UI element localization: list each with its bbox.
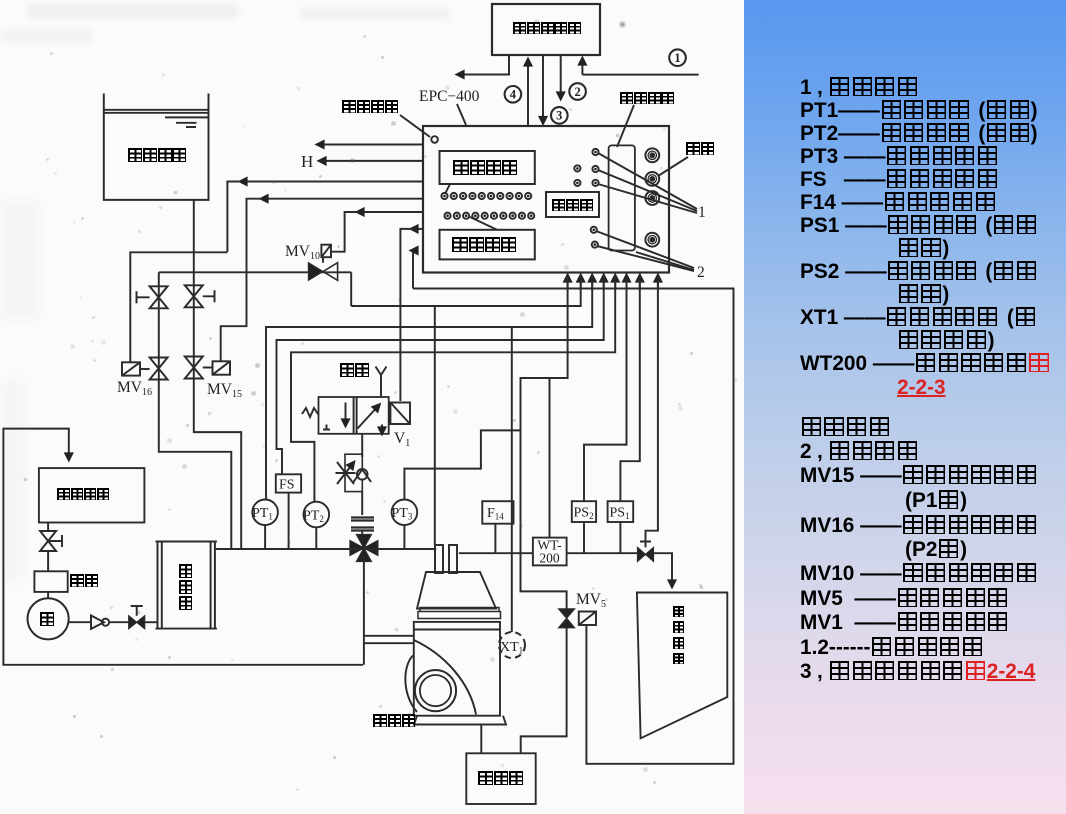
LED row 1	[441, 193, 447, 199]
svg-text:EPC−400: EPC−400	[419, 88, 480, 105]
wire horizontal right	[582, 74, 698, 76]
label 日用油柜 vertical	[672, 601, 685, 669]
sludge lines to separator	[364, 636, 414, 643]
svg-text:MV16: MV16	[117, 379, 152, 398]
wire to MV10	[357, 211, 423, 213]
LED row 2	[444, 213, 450, 219]
function LEDs left col	[574, 165, 580, 171]
leader to LED row2	[470, 217, 497, 230]
V1 spring	[302, 408, 319, 417]
label 功能符号	[620, 90, 675, 106]
MV16 link	[140, 368, 150, 370]
svg-text:MV15: MV15	[207, 381, 242, 400]
svg-text:MV10: MV10	[285, 243, 320, 262]
callout lines to 1	[598, 153, 697, 213]
V1 ticks	[323, 425, 386, 430]
fan4 to FS	[277, 276, 604, 474]
pump line valve	[129, 616, 145, 629]
svg-text:4: 4	[510, 88, 517, 102]
label 控钮	[686, 142, 714, 158]
power switch circle	[431, 136, 438, 143]
function LEDs right col	[592, 149, 598, 155]
WT-200 box	[533, 538, 567, 566]
knob 1	[645, 148, 659, 162]
svg-text:XT1: XT1	[500, 640, 523, 656]
separator curve	[414, 640, 476, 715]
leader power switch	[400, 115, 430, 137]
PT1 sensor	[252, 500, 278, 526]
svg-text:PS2: PS2	[574, 506, 594, 522]
leader 功能符号	[617, 105, 634, 147]
V1 left cell arrows	[345, 403, 347, 427]
svg-text:1: 1	[698, 204, 706, 221]
work water tank 工作水柜	[104, 94, 209, 200]
wire panel-left arrow H	[319, 160, 423, 162]
air supply antenna 气源	[376, 367, 387, 398]
fan5 to PT2	[291, 276, 615, 502]
output signal box 输出信号	[440, 230, 535, 260]
label 工作水柜	[128, 147, 187, 164]
svg-text:200: 200	[539, 551, 560, 566]
wire to MV15 chain	[261, 198, 423, 200]
valve V-a stem	[137, 291, 150, 303]
settle valve	[40, 523, 56, 572]
throttle below	[361, 491, 363, 515]
input alarm box 输入报警	[440, 151, 535, 184]
pump outlet	[69, 621, 91, 623]
LED centers row1	[443, 151, 597, 246]
riser top arrow	[411, 250, 413, 252]
separator flange	[418, 608, 501, 619]
svg-text:1: 1	[674, 51, 680, 65]
label 油渣柜	[478, 770, 523, 788]
settling tank 沉淀油柜	[39, 468, 144, 522]
MV10 butterfly valve	[308, 263, 323, 281]
valve V-b stem	[203, 290, 215, 302]
svg-text:2: 2	[574, 85, 580, 99]
air line to separator stub	[434, 306, 436, 545]
wire down from starter to panel	[542, 55, 544, 124]
svg-text:F14: F14	[487, 506, 504, 522]
leader 控钮	[658, 157, 688, 176]
fan2 to water line	[351, 276, 581, 306]
F14 box	[482, 501, 513, 524]
MV5 solenoid box	[579, 612, 596, 626]
label 输入报警	[453, 159, 518, 178]
separator inlet stub B	[449, 545, 457, 573]
V1 below to throttle	[361, 434, 363, 457]
PT3 wire chain	[404, 430, 520, 500]
svg-text:FS: FS	[279, 478, 295, 493]
svg-text:V1: V1	[394, 430, 410, 449]
fan stub arrows	[567, 275, 569, 290]
4-way valve MV1	[350, 535, 378, 562]
knob 3	[645, 191, 659, 205]
svg-text:PT2: PT2	[303, 509, 324, 525]
WT200 stem	[549, 378, 551, 538]
PT3 sensor	[392, 500, 418, 526]
valve V-a	[150, 286, 168, 308]
node 3 circled	[551, 107, 568, 124]
motor starter box 电机起动器	[492, 4, 600, 55]
svg-text:MV5: MV5	[576, 591, 606, 610]
main pipe left	[215, 548, 436, 550]
inlet valve stem	[640, 542, 651, 548]
ghost marks top-left	[28, 4, 238, 18]
leader EPC-400	[457, 104, 466, 125]
tank outlet down	[194, 200, 241, 549]
MV15 link	[203, 367, 213, 369]
XT1 stem	[511, 327, 513, 632]
label 显示窗	[552, 197, 593, 213]
label 分油机	[373, 714, 416, 730]
valve V-b	[185, 285, 203, 307]
valve MV16-v	[150, 358, 168, 380]
heater 加热器	[156, 542, 217, 629]
pump 泵	[27, 598, 68, 639]
separator bowl circle	[415, 670, 456, 711]
separator left bulge	[405, 655, 417, 712]
throttle check assembly	[345, 454, 362, 491]
wire to work tank upper	[240, 181, 423, 183]
settle tank loop	[3, 429, 363, 665]
svg-text:PS1: PS1	[610, 506, 630, 522]
wire to V1 solenoid	[411, 228, 423, 230]
svg-text:H: H	[301, 152, 313, 171]
wire down arrow short	[560, 55, 562, 99]
water line	[159, 271, 351, 273]
check valve	[91, 616, 104, 629]
daily tank inlet valve	[638, 547, 654, 561]
function symbol column	[609, 145, 635, 250]
wire panel-left arrow1	[317, 144, 423, 146]
filter box 滤器	[34, 571, 67, 592]
EPC-400 control panel	[423, 126, 669, 273]
callout lines to 2	[596, 231, 694, 271]
label 滤器	[70, 574, 98, 590]
MV10 stem	[322, 257, 324, 263]
wire from starter right	[581, 58, 583, 75]
svg-text:PT3: PT3	[392, 506, 413, 522]
fan1 to MV5	[521, 276, 568, 610]
label WT-200	[537, 538, 562, 566]
damper bars	[351, 518, 374, 531]
wire MV16 control	[130, 252, 227, 362]
V1 solenoid box	[390, 403, 410, 425]
separator base	[414, 716, 506, 725]
output LEDs bottom	[591, 227, 597, 233]
fan7 to PS1	[620, 276, 639, 501]
wire up arrow into starter	[527, 59, 529, 126]
scan noise speckles	[0, 0, 1, 1]
fan8 to inlet valve	[646, 276, 658, 541]
label 电机起动器	[513, 20, 581, 36]
knob 4	[645, 233, 659, 247]
label 加热器 vertical	[178, 562, 193, 612]
label 电源开关	[342, 100, 399, 116]
label 泵	[40, 611, 55, 628]
pump valve stem	[131, 606, 143, 616]
separator inlet stub A	[435, 545, 443, 573]
fan6 to PS2	[584, 276, 627, 501]
MV15 solenoid box	[213, 361, 231, 374]
MV5 drain	[521, 628, 567, 754]
below panel bus	[413, 289, 734, 764]
node 4 circled	[505, 86, 522, 103]
separator cone	[417, 572, 496, 609]
T to y306	[350, 272, 352, 306]
svg-text:2: 2	[697, 264, 705, 281]
node 1 circled	[669, 49, 686, 66]
PS1 box	[608, 501, 634, 522]
fan3 to PT1	[266, 276, 592, 500]
label 气源	[340, 362, 369, 379]
PS2 box	[572, 501, 596, 522]
valve MV15-v	[185, 357, 203, 379]
label 输出信号	[452, 236, 517, 255]
MV16 solenoid box	[122, 362, 140, 375]
node 2 circled	[569, 83, 586, 100]
left water branch down	[159, 272, 232, 549]
wire from starter left down	[457, 55, 509, 75]
pneumatic valve V1 box	[319, 397, 389, 434]
below 4way to loop	[363, 556, 365, 665]
XT1 sensor dashed	[499, 632, 525, 658]
pipe right of separator	[459, 553, 672, 587]
MV10 solenoid box	[321, 245, 331, 258]
MV5 valve	[559, 609, 575, 628]
label 沉淀油柜	[57, 487, 110, 502]
leader to LED row1	[445, 184, 450, 194]
digits in circles	[510, 51, 681, 123]
svg-text:PT1: PT1	[252, 506, 273, 522]
knob 2	[645, 172, 659, 186]
daily oil tank 日用油柜	[637, 593, 727, 739]
FS sensor box	[276, 474, 301, 492]
separator outlet	[480, 725, 482, 754]
sludge tank 油渣柜	[466, 753, 535, 804]
separator body	[414, 622, 500, 716]
V1 right cell arrow	[358, 405, 380, 429]
settle valve stem	[48, 535, 62, 547]
PT2 sensor	[304, 502, 330, 528]
display window box 显示窗	[546, 192, 599, 217]
svg-text:3: 3	[556, 109, 562, 123]
